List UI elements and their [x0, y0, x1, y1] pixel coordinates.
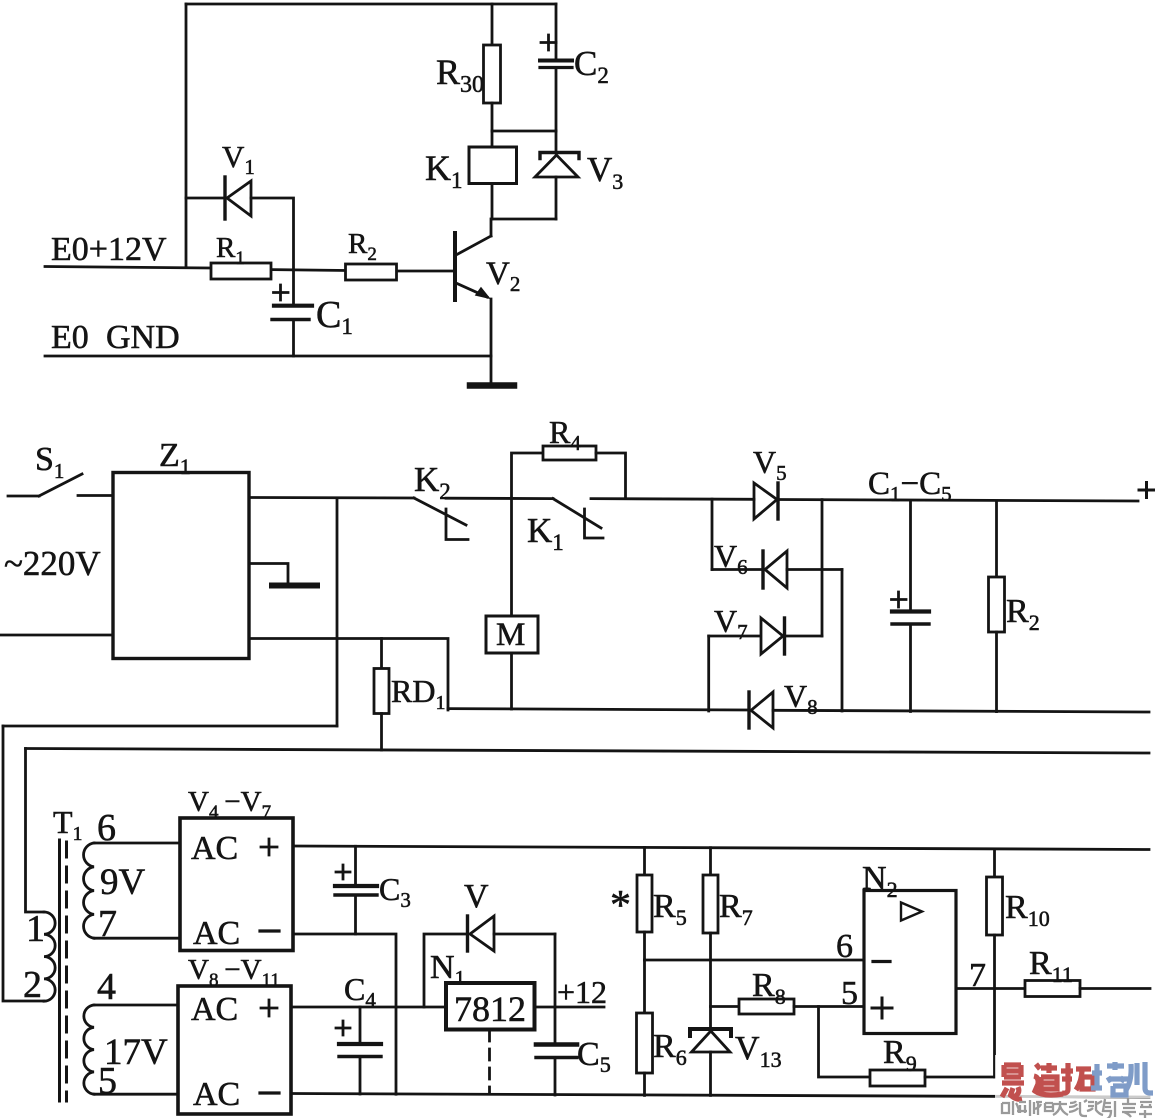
watermark logo peixun blue characters: [1091, 1062, 1153, 1095]
node E0+12V rail: [45, 231, 454, 271]
svg-text:R1: R1: [216, 232, 245, 269]
node + polarity right end: [1139, 483, 1154, 498]
wire main AC line to V5: [591, 497, 754, 500]
svg-text:C5: C5: [577, 1036, 611, 1077]
svg-text:V7: V7: [714, 603, 748, 644]
wire left return line: [3, 725, 337, 728]
svg-text:C1: C1: [316, 294, 353, 339]
transformer primary winding 1-2: [23, 908, 55, 1006]
diode V1: [222, 139, 255, 219]
wire down to primary top: [26, 749, 45, 913]
motor M branch: [486, 498, 538, 709]
wire node J1 (R30 bottom to C2 branch): [492, 130, 556, 133]
resistor R11: [1025, 945, 1150, 997]
svg-text:5: 5: [98, 1060, 117, 1102]
ground symbol below V2: [470, 382, 514, 389]
svg-text:AC: AC: [193, 1076, 240, 1113]
resistor R2 shunt: [989, 501, 1040, 712]
wire Z1 bottom output: [249, 639, 448, 711]
svg-text:R8: R8: [752, 967, 786, 1009]
node E0 GND rail: [45, 319, 491, 356]
svg-text:5: 5: [841, 975, 858, 1012]
relay coil K1: [425, 131, 517, 219]
svg-text:4: 4: [97, 966, 116, 1008]
resistor R7: [703, 848, 753, 1029]
diode V8: [749, 678, 818, 728]
capacitor bank C1-C5: [892, 501, 930, 712]
svg-text:R10: R10: [1005, 889, 1050, 931]
svg-text:C3: C3: [379, 871, 411, 912]
diode V protection across regulator: [424, 878, 555, 1007]
transformer secondary winding 6-7 (9V): [84, 807, 180, 945]
wire bridge2 DC+ output to regulator input: [291, 1006, 446, 1009]
resistor R10: [987, 849, 1050, 1077]
wire AC return rail right portion: [773, 710, 1149, 712]
capacitor C3: [335, 846, 411, 934]
svg-text:V13: V13: [735, 1030, 782, 1072]
svg-text:R11: R11: [1029, 945, 1073, 987]
resistor R4 bypass branch: [512, 414, 626, 498]
bridge rectifier V8-V11: [178, 954, 291, 1114]
svg-text:R5: R5: [653, 888, 687, 930]
svg-text:R9: R9: [883, 1034, 917, 1076]
svg-text:K1: K1: [425, 148, 463, 193]
op-amp N2: [836, 860, 956, 1034]
watermark background: [995, 1055, 1155, 1098]
resistor R1: [211, 232, 271, 279]
svg-text:E0+12V: E0+12V: [51, 231, 167, 268]
svg-text:AC: AC: [191, 991, 238, 1028]
switch S1: [8, 441, 113, 496]
wire long lower AC line: [26, 749, 1150, 754]
diode V3: [535, 131, 623, 219]
svg-text:R4: R4: [549, 414, 581, 455]
svg-text:M: M: [496, 617, 525, 653]
svg-text:V3: V3: [587, 150, 623, 194]
wire output pin 7: [956, 957, 1025, 994]
wire 7812 ground pin (dashed): [488, 1030, 491, 1094]
svg-text:V2: V2: [486, 256, 520, 296]
svg-text:R30: R30: [436, 52, 484, 98]
diode V7: [709, 603, 822, 654]
svg-text:R2: R2: [1006, 593, 1040, 635]
wire junction down to V6 row: [711, 499, 714, 569]
wire Z1 top output to K2: [249, 496, 414, 499]
capacitor C1: [272, 270, 353, 356]
svg-text:R6: R6: [653, 1028, 687, 1070]
transformer secondary winding 4-5 (17V): [84, 966, 178, 1102]
svg-text:7812: 7812: [454, 989, 526, 1029]
svg-text:R7: R7: [719, 888, 753, 930]
svg-text:V8 −V11: V8 −V11: [188, 954, 280, 991]
svg-text:7: 7: [98, 903, 117, 945]
fuse resistor RD1: [374, 639, 445, 751]
resistor R6: [637, 960, 687, 1095]
wire bottom DC- rail: [291, 1094, 1149, 1098]
wire V1 branch right + down to R1 output node: [251, 198, 294, 270]
wire junction right of V5 down to V7 row: [821, 500, 824, 636]
capacitor C5: [536, 1007, 611, 1095]
resistor R5: [610, 847, 687, 960]
wire main DC+ line to right edge: [778, 500, 1138, 502]
svg-text:V6: V6: [714, 538, 748, 579]
wire +12 output of 7812: [535, 974, 608, 1010]
wire left vertical from top rail to E0+12V line: [185, 4, 188, 267]
svg-text:S1: S1: [35, 441, 64, 483]
wire junction from main line down to left return: [336, 498, 339, 726]
svg-text:R2: R2: [348, 228, 377, 265]
svg-text:N2: N2: [862, 860, 898, 902]
wire bridge1 DC+ output rail (top rail of regulator section): [293, 846, 1149, 850]
svg-text:V8: V8: [784, 678, 818, 719]
svg-text:C2: C2: [574, 44, 609, 88]
contact K1: [527, 499, 603, 555]
svg-text:V1: V1: [222, 139, 255, 179]
wire main AC line K2 to K1 contact: [446, 497, 553, 500]
svg-text:Z1: Z1: [159, 437, 191, 479]
svg-text:GND: GND: [106, 319, 180, 356]
watermark logo yiditop red characters: [1002, 1063, 1093, 1099]
svg-text:6: 6: [836, 928, 853, 965]
svg-text:E0: E0: [51, 319, 89, 356]
box Z1: [113, 437, 249, 659]
svg-text:+12: +12: [557, 974, 607, 1010]
svg-text:1: 1: [26, 908, 45, 950]
diode V5: [753, 444, 787, 519]
svg-text:AC: AC: [191, 830, 238, 867]
svg-text:6: 6: [97, 807, 116, 849]
svg-text:9V: 9V: [100, 862, 146, 903]
svg-text:V4 −V7: V4 −V7: [188, 786, 271, 823]
wire V7 left down to AC return rail: [707, 636, 710, 711]
resistor R2: [346, 228, 397, 280]
svg-text:T1: T1: [53, 804, 83, 845]
resistor R30: [436, 4, 501, 131]
resistor R9 feedback: [819, 1007, 995, 1087]
svg-text:*: *: [610, 883, 631, 929]
bridge rectifier V4-V7: [180, 786, 293, 952]
svg-text:V: V: [464, 878, 489, 915]
wire collector up to relay branch: [490, 219, 493, 236]
svg-text:~220V: ~220V: [4, 544, 101, 583]
svg-text:AC: AC: [193, 915, 240, 952]
wire V1 branch left: [186, 197, 224, 200]
wire AC return rail with V8: [448, 709, 749, 710]
wire emitter down through GND rail: [490, 299, 493, 384]
wire 220V bottom input: [0, 634, 113, 637]
watermark subtitle gray characters: [1002, 1098, 1152, 1118]
regulator N1 7812: [430, 949, 535, 1030]
wire bridge1 DC- output: [293, 934, 396, 1094]
wire inverting input line pin 6: [645, 959, 865, 962]
wire V6 right down to AC return rail: [841, 570, 844, 712]
capacitor C4: [336, 971, 381, 1094]
wire non-inverting input line pin 5: [794, 1005, 864, 1008]
transistor V2: [455, 233, 520, 300]
capacitor C2: [540, 4, 609, 131]
svg-text:K1: K1: [527, 511, 564, 555]
diode V6: [712, 538, 842, 588]
wire Z1 middle stub: [249, 564, 288, 584]
wire top +12V rail: [186, 3, 556, 6]
wire node J2 (K1 bottom to V3 bottom): [492, 218, 556, 221]
svg-text:2: 2: [23, 964, 42, 1006]
resistor R8: [711, 967, 795, 1014]
svg-text:RD1: RD1: [391, 673, 445, 714]
wire left edge down to primary bottom: [3, 726, 44, 1001]
contact K2: [414, 460, 468, 540]
transformer T1 core: [53, 804, 83, 1101]
zener diode V13: [690, 1029, 782, 1095]
ground chassis bar at Z1: [272, 583, 317, 589]
svg-text:V5: V5: [753, 444, 787, 485]
